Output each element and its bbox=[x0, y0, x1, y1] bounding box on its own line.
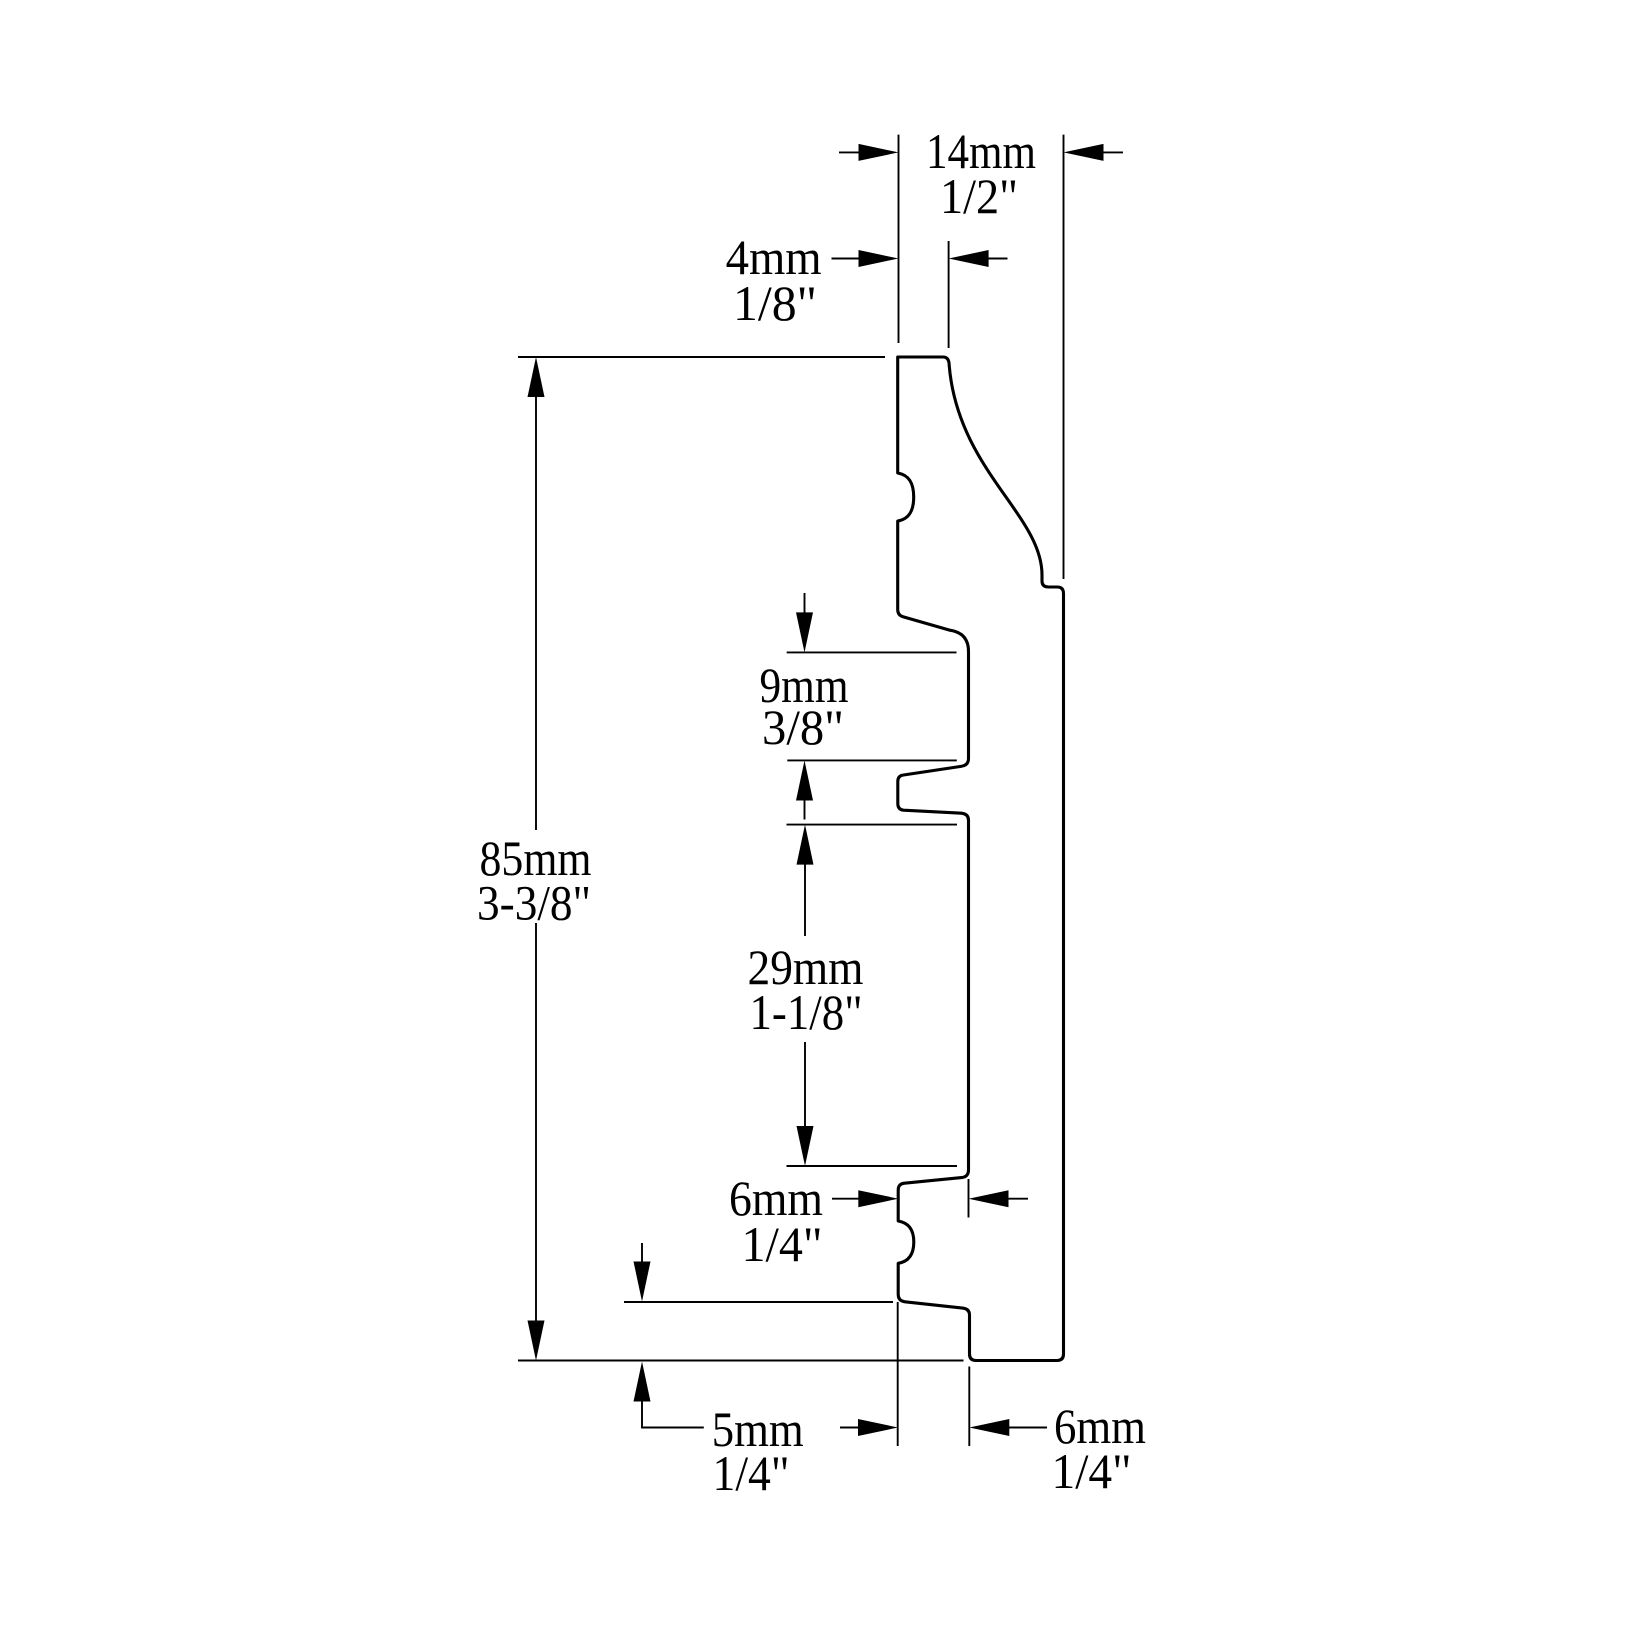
dimension 9mm: upper arrow stem bbox=[804, 593, 806, 614]
dimension 6mm bottom: right arrow tail and leader bbox=[1008, 1427, 1048, 1429]
dimension 29mm: lower stem bbox=[804, 1042, 806, 1128]
arrowhead: 5mm upper (down) bbox=[634, 1262, 651, 1302]
arrowhead: 6mm middle right bbox=[969, 1190, 1009, 1207]
arrowhead: 5mm lower (up) bbox=[634, 1362, 651, 1402]
dimension 14mm: right arrow tail bbox=[1102, 151, 1123, 153]
svg-text:1/8": 1/8" bbox=[733, 275, 817, 331]
extension line: 85mm top horizontal bbox=[518, 356, 885, 358]
dimension 9mm: lower arrow stem bbox=[804, 798, 806, 820]
dimension 6mm middle: left arrow tail bbox=[832, 1198, 860, 1200]
extension line: front face, top bbox=[898, 135, 900, 343]
arrowhead: 14mm left bbox=[859, 144, 899, 161]
dimension 5mm: leader to label bbox=[642, 1400, 704, 1428]
arrowhead: 4mm left bbox=[859, 250, 899, 267]
arrowhead: 9mm lower (up) bbox=[796, 761, 813, 801]
dimension 29mm: upper stem bbox=[804, 863, 806, 936]
arrowhead: 85mm bottom (down) bbox=[528, 1321, 545, 1361]
arrowhead: 85mm top (up) bbox=[528, 357, 545, 397]
extension line: back face bbox=[1063, 135, 1065, 579]
extension line: 29mm bottom horizontal bbox=[787, 1165, 958, 1167]
svg-text:1-1/8": 1-1/8" bbox=[750, 984, 863, 1040]
dimension 6mm bottom: left arrow tail bbox=[840, 1427, 860, 1429]
dimension 5mm: upper arrow stem bbox=[641, 1243, 643, 1263]
arrowhead: 6mm middle left bbox=[858, 1190, 898, 1207]
dimension 85mm: lower stem bbox=[535, 923, 537, 1322]
skirting-board profile outline (cross-section) bbox=[898, 357, 1064, 1361]
dimension 85mm: upper stem bbox=[535, 395, 537, 830]
extension line: 29mm top horizontal bbox=[787, 824, 958, 826]
arrowhead: 29mm lower (down) bbox=[797, 1126, 814, 1166]
dimension 4mm: right arrow tail bbox=[987, 258, 1008, 260]
svg-text:1/4": 1/4" bbox=[1052, 1443, 1132, 1499]
svg-text:1/4": 1/4" bbox=[713, 1445, 790, 1501]
arrowhead: 4mm right bbox=[949, 250, 989, 267]
extension line: 9mm top horizontal bbox=[787, 651, 957, 653]
arrowhead: 9mm upper (down) bbox=[796, 612, 813, 652]
dimension 14mm: left arrow tail bbox=[839, 151, 860, 153]
svg-text:1/4": 1/4" bbox=[742, 1216, 823, 1272]
arrowhead: 6mm bottom left bbox=[858, 1419, 898, 1436]
svg-text:3-3/8": 3-3/8" bbox=[477, 874, 591, 930]
extension line: front face, below bottom bbox=[897, 1302, 899, 1446]
extension line: foot face, below bottom bbox=[968, 1367, 970, 1447]
dimension 6mm middle: right arrow tail bbox=[1007, 1198, 1028, 1200]
dimension 4mm: left arrow tail bbox=[832, 258, 861, 260]
extension line: 5mm top horizontal bbox=[624, 1301, 893, 1303]
arrowhead: 14mm right bbox=[1064, 144, 1104, 161]
extension line: 4mm dimension right bbox=[948, 241, 950, 348]
extension tick: 6mm middle dimension right bbox=[968, 1179, 970, 1218]
extension line: 9mm bottom horizontal bbox=[787, 759, 957, 761]
arrowhead: 6mm bottom right bbox=[969, 1419, 1009, 1436]
extension line: bottom horizontal bbox=[518, 1360, 964, 1362]
svg-text:3/8": 3/8" bbox=[762, 699, 844, 755]
arrowhead: 29mm upper (up) bbox=[797, 825, 814, 865]
svg-text:1/2": 1/2" bbox=[940, 168, 1018, 224]
